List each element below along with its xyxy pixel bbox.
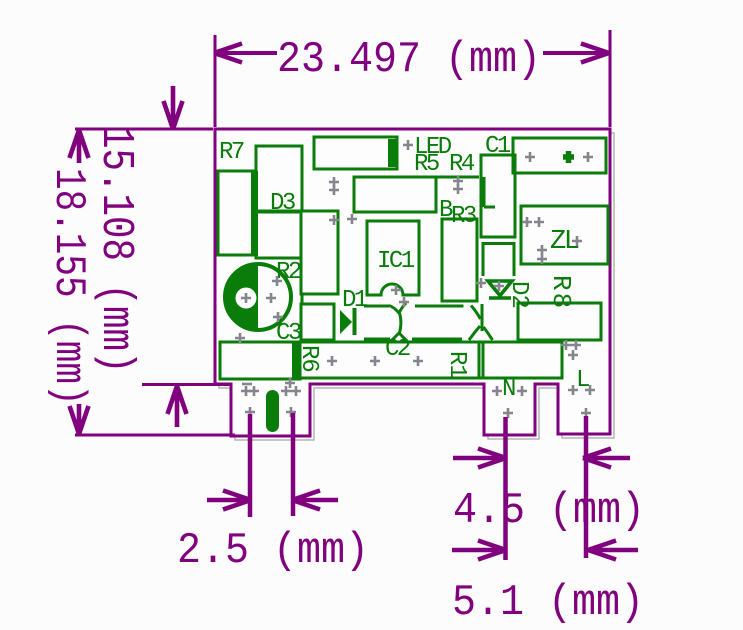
svg-text:D2: D2 [505, 281, 532, 308]
svg-text:R4: R4 [449, 151, 475, 178]
svg-text:23.497 (mm): 23.497 (mm) [277, 35, 541, 85]
svg-text:15.108 (mm): 15.108 (mm) [90, 126, 140, 373]
svg-text:C3: C3 [276, 320, 301, 347]
svg-text:D3: D3 [270, 190, 295, 217]
svg-text:R7: R7 [219, 139, 244, 166]
svg-text:R8: R8 [546, 275, 576, 310]
svg-text:IC1: IC1 [377, 248, 415, 275]
svg-text:R1: R1 [443, 351, 470, 378]
svg-text:R5: R5 [414, 151, 439, 178]
svg-text:C1: C1 [485, 133, 511, 160]
svg-text:C2: C2 [385, 336, 410, 363]
svg-text:2.5 (mm): 2.5 (mm) [177, 526, 369, 576]
svg-text:18.155 (mm): 18.155 (mm) [44, 168, 93, 406]
svg-text:5.1 (mm): 5.1 (mm) [452, 578, 644, 628]
svg-text:D1: D1 [342, 287, 368, 314]
svg-text:R3: R3 [451, 203, 476, 230]
svg-text:R6: R6 [295, 345, 322, 372]
svg-text:N: N [502, 376, 515, 403]
svg-text:4.5 (mm): 4.5 (mm) [453, 486, 645, 536]
